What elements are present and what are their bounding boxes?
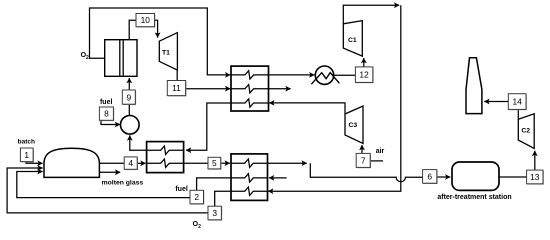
svg-text:8: 8 xyxy=(104,109,109,119)
wire: HX1 top stream exit left, up into burner circle xyxy=(130,135,147,150)
wire: fuel stub into HX3 middle stream xyxy=(269,177,287,179)
stream tag 11 xyxy=(167,81,186,97)
svg-text:batch: batch xyxy=(18,138,35,145)
wire: stream tag 9 to separator bottom arrow xyxy=(128,78,130,90)
separator membrane line 2 xyxy=(122,40,124,77)
svg-text:4: 4 xyxy=(128,158,133,168)
wire: batch tag 1 into furnace xyxy=(26,162,43,164)
svg-text:14: 14 xyxy=(513,97,523,107)
wire: oxidant return into furnace (from tag 3 line) xyxy=(7,168,208,213)
wire: stream tag 4 to HX1 bottom stream xyxy=(137,162,145,164)
node O2 label top-left xyxy=(81,52,89,61)
wire: fuel stream tag 8 to burner xyxy=(101,120,120,124)
stack (chimney) xyxy=(466,58,482,114)
wire: stream tag 5 to HX3 top stream xyxy=(221,162,230,164)
svg-text:7: 7 xyxy=(361,155,366,165)
wire: air stub right of stream tag 7 xyxy=(370,160,383,162)
wire: stream tag 10 to turbine T1 inlet xyxy=(155,20,158,37)
svg-text:1: 1 xyxy=(24,150,29,160)
wire: O2 feed from separator left, up, across top, down into HX2 top stream xyxy=(90,8,231,75)
svg-text:air: air xyxy=(376,148,385,155)
wire: HX3 top stream exit, jog down, to stream tag 6 with hop over recirc line xyxy=(268,162,307,164)
svg-text:molten glass: molten glass xyxy=(102,180,144,187)
wire: after-treatment to stream tag 13 xyxy=(499,176,527,178)
wire: cooler outlet to stream tag 12 xyxy=(334,74,356,76)
wire: HX2 top stream outlet to cooler xyxy=(269,74,315,76)
heat exchanger HX2 (upper middle) xyxy=(231,66,269,111)
cooler coolant zigzag xyxy=(311,73,339,85)
HX2 bottom stream with zigzag xyxy=(231,99,269,107)
separator U1 (air separation unit) xyxy=(105,40,137,77)
separator membrane line 1 xyxy=(119,40,121,77)
stream tag 2 (fuel) xyxy=(190,190,204,204)
heat exchanger HX3 (lower middle) xyxy=(231,154,268,201)
HX1 bottom stream with zigzag xyxy=(147,159,184,167)
svg-text:6: 6 xyxy=(427,171,432,181)
svg-text:fuel: fuel xyxy=(175,186,188,193)
svg-text:after-treatment station: after-treatment station xyxy=(437,194,511,201)
stream tag 8 (fuel to burner) xyxy=(99,107,114,121)
svg-text:12: 12 xyxy=(359,70,369,80)
svg-text:O2: O2 xyxy=(193,221,201,230)
svg-text:C1: C1 xyxy=(348,37,357,44)
HX2 top stream with zigzag xyxy=(231,71,269,79)
svg-text:5: 5 xyxy=(212,158,217,168)
stream tag 9 xyxy=(122,90,136,105)
wire: HX3 middle stream exit to fuel tag 2 xyxy=(197,178,231,190)
turbine T1 xyxy=(159,33,177,71)
wire: HX3 bottom stream exit to oxidant tag 3 xyxy=(215,191,231,206)
svg-text:10: 10 xyxy=(141,15,151,25)
wire: stream tag 13 up to compressor C2 inlet xyxy=(534,151,536,170)
wire: molten glass outlet arrow xyxy=(99,171,120,173)
compressor C3 xyxy=(345,106,363,144)
wire: recirculation vertical drop x=400.8 from top to bottom-left return xyxy=(268,5,401,191)
stream tag 13 xyxy=(527,170,544,184)
stream tag 3 (O2) xyxy=(208,206,222,220)
wire: stream tag 14 to stack xyxy=(484,101,508,103)
wire: C3 outlet to HX2 bottom stream xyxy=(269,103,345,114)
cooler E1 (circle with coolant zigzag) xyxy=(315,66,333,84)
stream tag 14 xyxy=(508,94,527,111)
svg-text:O2: O2 xyxy=(81,52,89,61)
wire: stream tag 12 up to compressor C1 inlet xyxy=(363,58,365,67)
wire: stream tag 7 up to C3 inlet xyxy=(361,145,363,153)
HX3 top stream with zigzag xyxy=(231,159,268,167)
wire: separator top to stream tag 10 xyxy=(129,20,136,40)
wire: stream tag 6 into after-treatment station xyxy=(437,176,451,178)
glass furnace F1 xyxy=(44,148,99,177)
wire: furnace to stream tag 4 xyxy=(99,162,124,164)
wire: HX1 bottom stream to stream tag 5 xyxy=(184,162,208,164)
HX3 bottom stream with zigzag xyxy=(231,187,268,195)
wire: stream tag 11 to HX2 middle stream xyxy=(186,88,231,90)
wire: HX2 bottom stream exit left, down, into HX1 top stream xyxy=(186,103,231,150)
svg-text:C2: C2 xyxy=(521,128,530,135)
svg-text:2: 2 xyxy=(194,192,199,202)
stream tag 1 (batch) xyxy=(20,148,34,162)
wire: burner top up through stream tag 9 into separator bottom xyxy=(128,104,130,115)
wire: HX2 middle stream outlet (free arrow) xyxy=(269,88,291,90)
wire: fuel return into furnace (from tag 2 line) xyxy=(17,172,190,198)
svg-text:9: 9 xyxy=(126,92,131,102)
HX3 middle stream with zigzag xyxy=(231,174,268,182)
stream tag 10 xyxy=(136,14,155,28)
svg-text:11: 11 xyxy=(172,83,181,93)
burner/mixer B1 (circle) xyxy=(121,116,140,135)
stream tag 12 xyxy=(355,67,373,83)
svg-text:13: 13 xyxy=(530,172,540,182)
svg-text:3: 3 xyxy=(212,208,217,218)
HX2 middle stream with zigzag xyxy=(231,85,269,93)
wire: C2 outlet up to stream tag 14 xyxy=(517,109,519,119)
stream tag 4 xyxy=(124,157,138,170)
stream tag 7 (air) xyxy=(356,153,371,168)
heat exchanger HX1 (left, batch/flue) xyxy=(147,142,184,173)
svg-text:T1: T1 xyxy=(162,49,170,56)
stream tag 6 xyxy=(423,170,438,184)
wire: C1 outlet up, right along top, arrow into recirculation drop xyxy=(343,5,399,24)
svg-text:C3: C3 xyxy=(348,122,357,129)
compressor C2 xyxy=(518,114,534,149)
svg-text:fuel: fuel xyxy=(100,99,113,106)
stream tag 5 xyxy=(208,157,222,169)
HX1 top stream with zigzag xyxy=(147,146,184,154)
wire: T1 outlet down to stream tag 11 xyxy=(176,70,178,80)
after-treatment station vessel xyxy=(452,162,499,190)
compressor C1 xyxy=(343,21,362,57)
